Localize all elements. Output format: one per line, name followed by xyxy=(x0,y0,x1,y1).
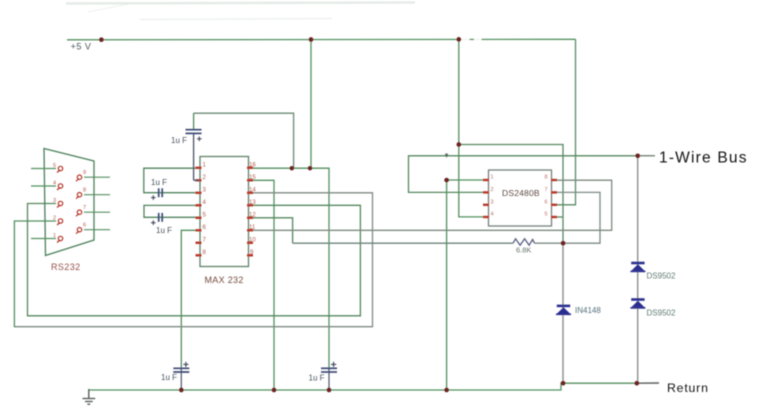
svg-text:10: 10 xyxy=(249,237,256,243)
wire +5V rail xyxy=(67,38,576,41)
connector RS232 DB9 body xyxy=(44,149,94,256)
wire DS2480B R4 stub xyxy=(552,216,564,218)
wire loop D MAX232 pin14 to DB9 pin4 xyxy=(14,193,372,327)
white-out patches on +5V rail xyxy=(462,36,470,45)
wire +5V mid drop x=458.8 down to DS2480B L4 xyxy=(459,39,489,217)
svg-text:1u F: 1u F xyxy=(161,373,177,382)
MAX232 left pin ticks xyxy=(196,168,202,256)
svg-text:DS2480B: DS2480B xyxy=(502,188,540,198)
node junction C3 wire to pin16 net xyxy=(290,166,295,171)
node junction +5V to x=311 drop xyxy=(309,37,314,42)
capacitor C3 (1uF top) xyxy=(186,113,202,180)
wire MAX232 pin1 to loop of capacitor C1 xyxy=(144,168,199,193)
svg-text:DS9502: DS9502 xyxy=(647,272,676,281)
diode D3 DS9502 lower xyxy=(630,300,645,308)
DS2480B left pin ticks xyxy=(483,180,489,217)
svg-text:4: 4 xyxy=(491,212,494,218)
svg-text:1: 1 xyxy=(53,233,56,239)
node ground junction C5 xyxy=(327,388,332,393)
node ground junction IN4148 xyxy=(561,381,566,386)
wire U MAX232 pin11 to DS2480B R1 xyxy=(249,180,612,230)
white-out patch over bus vertical xyxy=(440,158,453,178)
svg-text:1u F: 1u F xyxy=(156,226,172,235)
wire loop C MAX232 pin13 to DB9 pin3 xyxy=(28,204,361,316)
ground symbol xyxy=(83,389,96,404)
capacitor C2 (1uF left lower) xyxy=(151,213,162,225)
wire diode DS9502 string lead xyxy=(637,156,639,383)
svg-text:5: 5 xyxy=(53,163,56,169)
svg-text:5: 5 xyxy=(545,212,548,218)
wire resistor right lead to x=600 up to DS2480B R2 xyxy=(535,192,601,243)
node junction +5V to x=458.8 drop xyxy=(456,37,461,42)
svg-text:6.8K: 6.8K xyxy=(516,246,531,255)
wire branch y=144.5 from x=458.8 to x=563 xyxy=(459,145,563,244)
resistor R1 6.8K xyxy=(513,239,535,245)
wire vertical x=446.6 bus to ground with branch to DS2480B L1 xyxy=(446,156,448,390)
svg-text:6: 6 xyxy=(83,223,86,229)
DB9 right pin stubs xyxy=(84,177,110,230)
MAX232 pin numbers left xyxy=(203,162,207,256)
capacitor C1 (1uF left upper) xyxy=(151,188,162,200)
svg-text:9: 9 xyxy=(83,170,86,176)
svg-text:3: 3 xyxy=(53,198,56,204)
node ground junction x=446.6 xyxy=(444,388,449,393)
wire capacitor C3 top to junction over pin16 wire xyxy=(194,113,294,168)
svg-text:13: 13 xyxy=(249,200,256,206)
svg-text:Return: Return xyxy=(667,381,709,395)
scan artifact streaks xyxy=(66,3,415,20)
svg-text:1u F: 1u F xyxy=(151,178,167,187)
wire DS2480B L1 stub xyxy=(447,179,489,181)
svg-text:6: 6 xyxy=(545,199,548,205)
svg-text:+5 V: +5 V xyxy=(71,42,92,52)
node junction y=144.5 branch xyxy=(456,142,461,147)
svg-text:4: 4 xyxy=(53,181,56,187)
svg-text:8: 8 xyxy=(545,175,548,181)
svg-text:1u F: 1u F xyxy=(309,374,325,383)
wire return stub xyxy=(637,382,659,384)
node ground junction DS9502 xyxy=(634,381,639,386)
diode D1 IN4148 xyxy=(556,306,571,314)
DB9 left pin stubs xyxy=(31,169,56,239)
node junction resistor to IN4148 xyxy=(561,241,566,246)
node junction 1-Wire Bus tap xyxy=(635,153,640,158)
svg-text:7: 7 xyxy=(83,205,86,211)
svg-text:16: 16 xyxy=(249,162,256,168)
wire resistor run left lead xyxy=(293,242,513,244)
chip DS2480B body xyxy=(489,170,552,226)
MAX232 right pin ticks xyxy=(247,168,253,256)
svg-text:7: 7 xyxy=(545,187,548,193)
wire ground rail xyxy=(89,383,637,390)
DB9 pins left column xyxy=(57,166,63,242)
wire MAX232 pin6 down to cap C4 xyxy=(181,230,199,368)
node junction +5V drop to pin16 net xyxy=(308,166,313,171)
MAX232 pin numbers right xyxy=(249,162,256,256)
diode D2 DS9502 upper xyxy=(630,263,645,271)
svg-text:2: 2 xyxy=(491,187,494,193)
svg-text:1u F: 1u F xyxy=(171,136,187,145)
wire loop of capacitor C2 pins 4-5 xyxy=(144,205,199,217)
svg-text:3: 3 xyxy=(491,199,494,205)
wire MAX232 pin15 down to ground xyxy=(249,180,275,390)
svg-text:RS232: RS232 xyxy=(51,262,81,272)
node small dark dot on bus line xyxy=(445,153,448,156)
DS2480B pin numbers xyxy=(491,175,548,218)
svg-text:12: 12 xyxy=(249,212,256,218)
DB9 pins right column xyxy=(76,175,82,234)
svg-text:IN4148: IN4148 xyxy=(575,306,601,315)
wire 1-Wire bus line xyxy=(409,156,656,193)
node ground junction C4 xyxy=(179,388,184,393)
wire MAX232 pin16 to x=329 and down to cap C5 xyxy=(250,168,329,368)
svg-text:1-Wire Bus: 1-Wire Bus xyxy=(659,150,748,167)
op chip MAX232 body xyxy=(200,157,249,267)
wire diode IN4148 lead xyxy=(562,243,564,383)
svg-text:15: 15 xyxy=(249,175,256,181)
svg-text:2: 2 xyxy=(53,216,56,222)
svg-text:8: 8 xyxy=(83,188,86,194)
capacitor C4 (1uF bottom left) xyxy=(173,362,189,390)
capacitor C5 (1uF bottom mid) xyxy=(321,362,337,390)
svg-text:11: 11 xyxy=(249,225,256,231)
DS2480B right pin ticks xyxy=(551,180,557,217)
svg-text:14: 14 xyxy=(249,187,256,193)
wire 1-wire label stub xyxy=(638,155,655,157)
wire +5V right drop to DS2480B pin R3 xyxy=(552,39,576,205)
svg-text:1: 1 xyxy=(491,175,494,181)
node ground junction pin15 xyxy=(272,388,277,393)
wire +5V drop x=311 to MAX232 pin16 wire xyxy=(310,39,312,168)
node junction 1-wire to DS2480B L1 xyxy=(444,178,449,183)
svg-text:MAX 232: MAX 232 xyxy=(205,275,244,285)
wire MAX232 pin12 down to resistor run xyxy=(249,218,293,243)
svg-text:DS9502: DS9502 xyxy=(647,309,676,318)
node junction +5V label tap xyxy=(99,37,104,42)
